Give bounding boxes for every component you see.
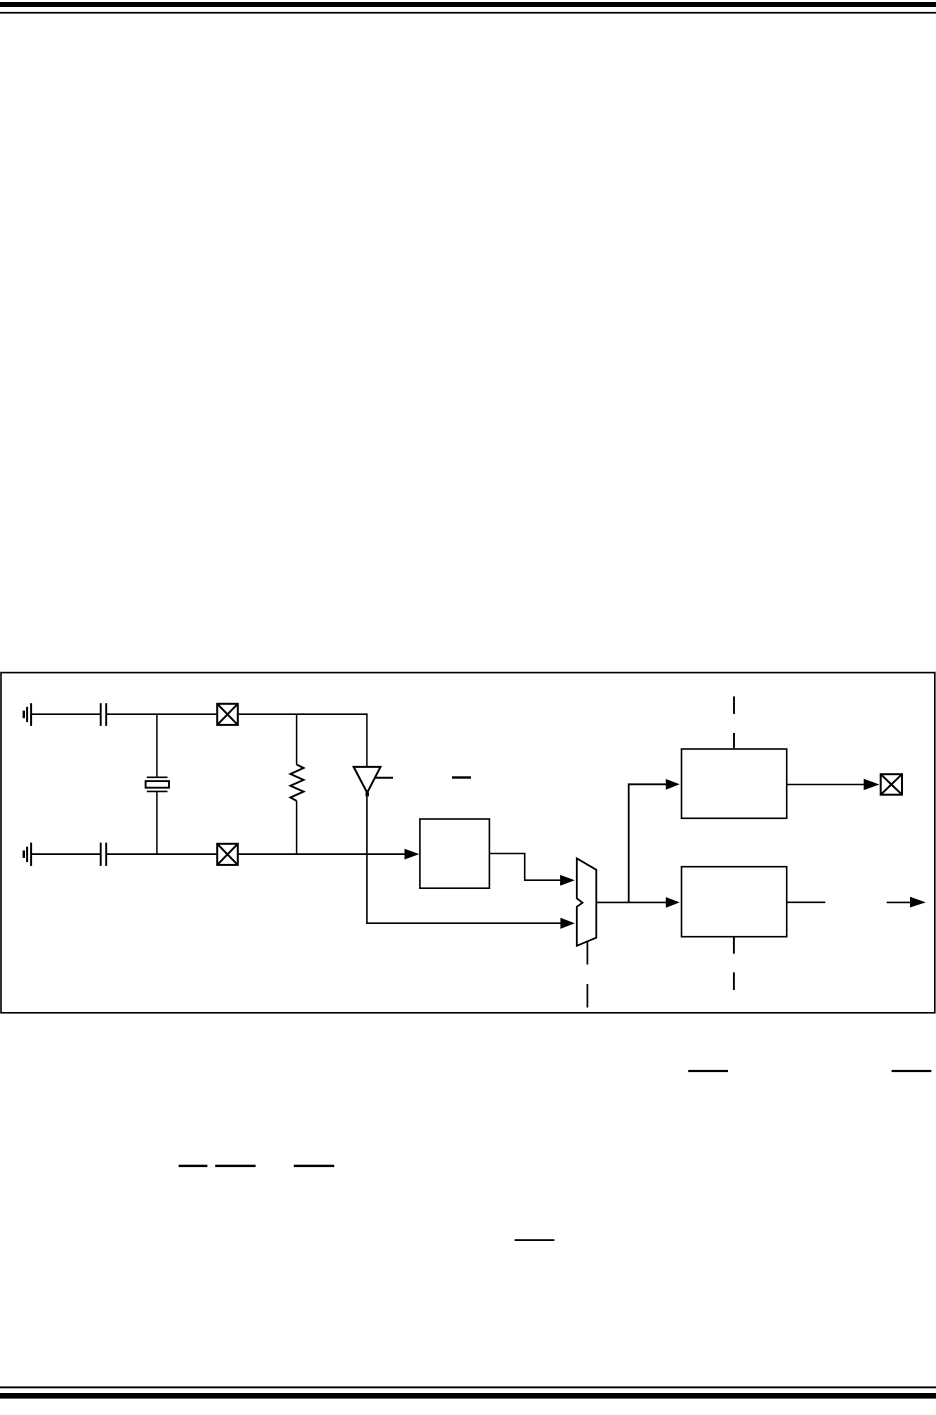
inverter U1 (triangle, output downward) — [354, 767, 393, 796]
pad XTAL2 (crossed square pin) — [217, 704, 238, 725]
overline (register bit label 3) — [294, 1165, 334, 1167]
wire C2 to pad XTAL1 — [107, 853, 216, 855]
bottom page rule (thin) — [0, 1386, 936, 1388]
wire down to inverter U1 input — [366, 714, 368, 767]
wire inverter output down — [366, 796, 368, 923]
wire to mux lower input — [366, 922, 561, 924]
block internal timing — [682, 867, 787, 937]
arrowhead clock output — [910, 897, 926, 908]
wire GND2 to C2 — [32, 853, 100, 855]
arrowhead into lower block — [666, 897, 680, 908]
arrowhead into oscillator block — [405, 849, 420, 860]
wire GND1 to C1 — [32, 713, 100, 715]
pad XTAL1 (crossed square pin) — [217, 844, 238, 865]
overline (register bit label 2) — [215, 1165, 255, 1167]
arrowhead into mux lower input — [560, 918, 574, 929]
arrowhead into upper block — [666, 779, 680, 790]
capacitor C1 — [101, 703, 107, 726]
wire mux output to lower block — [596, 901, 667, 903]
arrowhead into mux upper input — [560, 875, 575, 886]
block oscillator U2 — [420, 819, 490, 888]
overline (register bit label 1) — [179, 1165, 208, 1167]
capacitor C2 — [101, 843, 107, 866]
wire branch up to upper block — [629, 784, 667, 902]
mux (trapezoid with chevron notch) — [577, 858, 597, 945]
wire oscillator output elbow to mux upper input — [489, 854, 561, 881]
crystal Y1 — [146, 714, 169, 854]
top page rule (thick) — [0, 2, 936, 7]
bottom page rule (thick) — [0, 1393, 936, 1399]
ground GND2 (bottom-left) — [24, 843, 31, 866]
ground GND1 (top-left, rotated earth symbol) — [24, 703, 31, 726]
overline (signal label, below figure left of right margin) — [688, 1070, 728, 1072]
wire pad XTAL2 to inverter input corner — [239, 713, 368, 715]
wire pad XTAL1 to oscillator block input — [239, 853, 406, 855]
resistor R1 (vertical zigzag) — [290, 714, 303, 854]
wire timing block output stub — [787, 901, 826, 903]
overline (signal label, right margin) — [892, 1070, 932, 1072]
top page rule (thin) — [0, 12, 936, 14]
wire clock output arrow at right — [887, 901, 911, 903]
arrowhead into pad CLKO — [864, 779, 880, 790]
overline (inverter enable signal label) — [452, 776, 471, 778]
pad CLKO (crossed square pin) — [881, 774, 902, 795]
wire buffer output to pad — [787, 784, 865, 786]
dashed line above clock-output block — [733, 696, 735, 748]
figure frame — [1, 673, 935, 1013]
overline (signal label, mid page) — [515, 1239, 555, 1241]
wire C1 to pad XTAL2 — [107, 713, 216, 715]
dashed line below timing block — [733, 938, 735, 991]
block clock output buffer — [682, 749, 787, 818]
mux select dashed line — [586, 942, 588, 1008]
